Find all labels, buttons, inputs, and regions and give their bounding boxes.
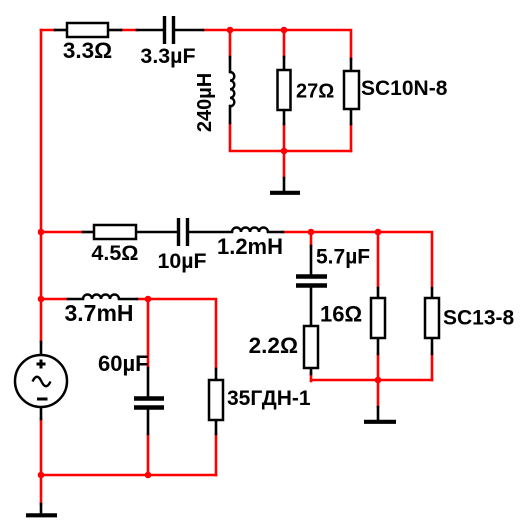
- svg-text:10µF: 10µF: [158, 249, 207, 273]
- svg-text:4.5Ω: 4.5Ω: [91, 241, 138, 265]
- svg-text:3.3µF: 3.3µF: [140, 44, 195, 68]
- svg-text:1.2mH: 1.2mH: [217, 234, 283, 259]
- svg-text:60µF: 60µF: [98, 351, 149, 376]
- svg-text:16Ω: 16Ω: [320, 302, 362, 327]
- svg-text:SC13-8: SC13-8: [443, 307, 515, 330]
- svg-text:3.3Ω: 3.3Ω: [63, 38, 112, 63]
- svg-text:27Ω: 27Ω: [296, 81, 334, 103]
- svg-text:240µH: 240µH: [194, 73, 216, 132]
- svg-text:35ГДН-1: 35ГДН-1: [227, 387, 311, 410]
- svg-text:SC10N-8: SC10N-8: [361, 77, 448, 100]
- svg-text:3.7mH: 3.7mH: [64, 300, 133, 326]
- svg-text:2.2Ω: 2.2Ω: [249, 333, 298, 358]
- svg-text:5.7µF: 5.7µF: [316, 246, 370, 269]
